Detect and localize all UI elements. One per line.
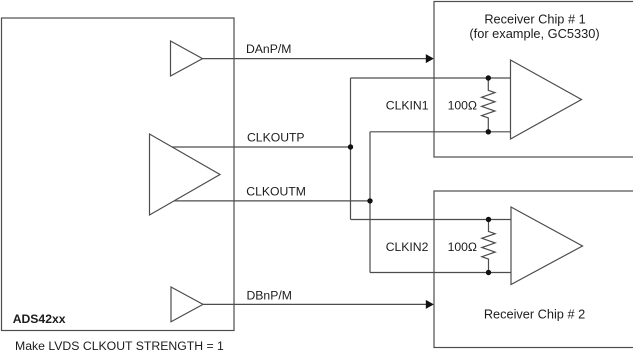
buffer A3 (DBnP/M output driver) [171, 287, 203, 322]
svg-text:Make LVDS CLKOUT STRENGTH = 1: Make LVDS CLKOUT STRENGTH = 1 [15, 339, 224, 352]
svg-text:Receiver Chip # 2: Receiver Chip # 2 [484, 306, 585, 321]
node R1 bottom [486, 129, 491, 134]
svg-text:CLKOUTM: CLKOUTM [246, 184, 306, 198]
svg-text:ADS42xx: ADS42xx [13, 312, 66, 326]
arrowhead DAnP/M into chip 1 [426, 54, 434, 63]
wire CLKOUTM [174, 200, 370, 202]
svg-text:(for example, GC5330): (for example, GC5330) [469, 26, 599, 41]
wire CLKIN2 M [370, 272, 511, 274]
svg-text:100Ω: 100Ω [448, 99, 477, 113]
arrowhead DBnP/M into chip 2 [426, 300, 434, 309]
IC U1 box ADS42xx [2, 18, 235, 331]
wire CLKOUTP [172, 146, 351, 148]
op-amp U3 (receiver chip 2 clock input amp) [511, 207, 583, 285]
wire DBnP/M [203, 303, 427, 305]
resistor R2 100 ohm [482, 220, 495, 273]
wire DAnP/M [203, 58, 428, 60]
buffer A2 (CLKOUT driver) [150, 134, 221, 215]
junction node CLKOUTM [367, 198, 372, 203]
junction node CLKOUTP [348, 144, 353, 149]
receiver chip 2 box [434, 191, 633, 348]
buffer A1 (DAnP/M output driver) [171, 41, 203, 76]
node R2 bottom [486, 270, 491, 275]
svg-text:CLKIN2: CLKIN2 [386, 240, 429, 254]
wire CLKIN1 M [370, 131, 511, 133]
wire CLKIN1 P [351, 77, 511, 79]
resistor R1 100 ohm [482, 78, 495, 132]
node R1 top [486, 75, 491, 80]
svg-text:CLKOUTP: CLKOUTP [247, 130, 305, 144]
node R2 top [486, 217, 491, 222]
wire vertical M net [369, 132, 371, 273]
svg-text:Receiver Chip # 1: Receiver Chip # 1 [484, 12, 585, 27]
receiver chip 1 box [434, 2, 633, 158]
svg-text:CLKIN1: CLKIN1 [386, 99, 429, 113]
wire CLKIN2 P [351, 219, 512, 221]
svg-text:DAnP/M: DAnP/M [246, 42, 291, 56]
svg-text:100Ω: 100Ω [448, 240, 477, 254]
svg-text:DBnP/M: DBnP/M [247, 288, 292, 302]
wire vertical P net [350, 78, 352, 220]
op-amp U2 (receiver chip 1 clock input amp) [511, 60, 582, 139]
